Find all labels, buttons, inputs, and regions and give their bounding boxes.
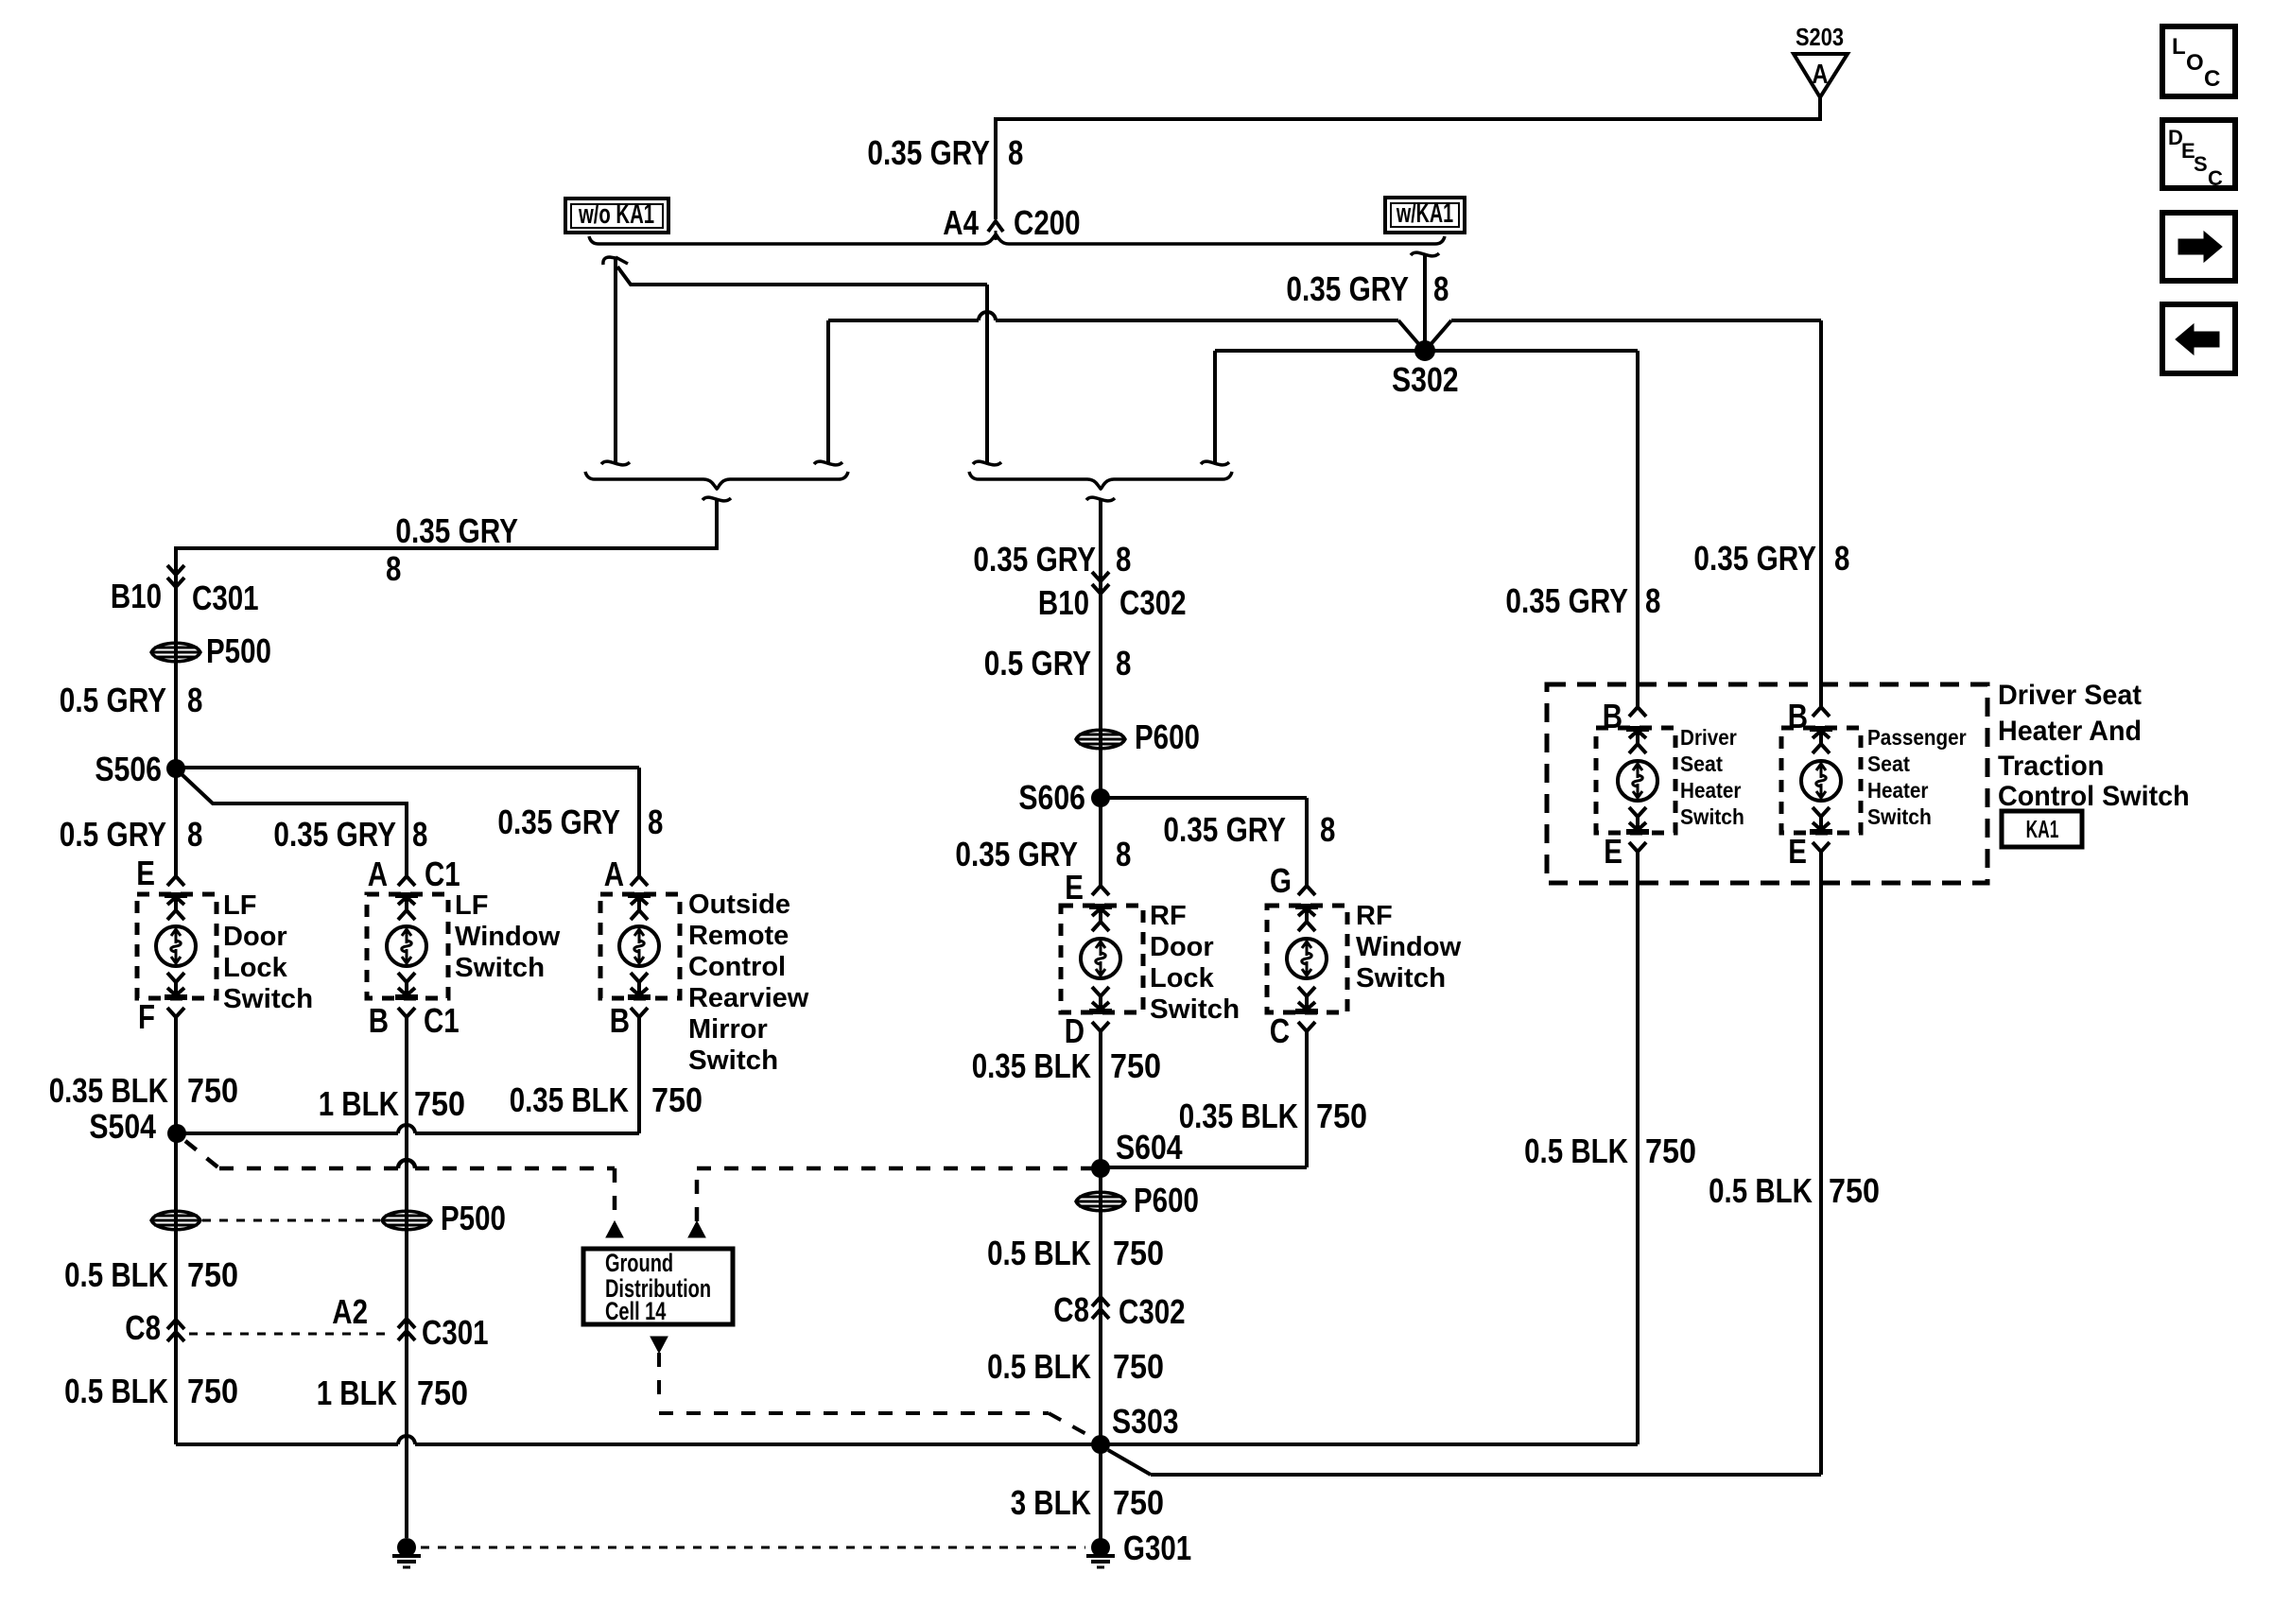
svg-text:0.35 GRY: 0.35 GRY bbox=[955, 835, 1078, 873]
svg-text:C1: C1 bbox=[425, 855, 460, 893]
wire S606 to RF door lock switch pin E bbox=[1099, 798, 1102, 886]
wire w/KA1 branch C200 to splice S302 bbox=[1411, 252, 1439, 256]
svg-text:Switch: Switch bbox=[1867, 804, 1932, 829]
option tag w/o KA1 box bbox=[565, 199, 668, 233]
svg-text:LF: LF bbox=[223, 890, 256, 921]
RF door lock switch lamp bbox=[1081, 939, 1120, 978]
svg-text:Switch: Switch bbox=[1150, 994, 1240, 1025]
svg-text:0.5 BLK: 0.5 BLK bbox=[987, 1234, 1091, 1272]
svg-text:0.5 BLK: 0.5 BLK bbox=[1709, 1171, 1813, 1210]
svg-text:Window: Window bbox=[455, 922, 561, 952]
svg-text:B10: B10 bbox=[111, 577, 162, 615]
svg-text:Control Switch: Control Switch bbox=[1998, 781, 2190, 812]
outside mirror switch terminals bbox=[631, 876, 648, 886]
grommet P600 (feed) bbox=[1076, 730, 1125, 749]
svg-text:8: 8 bbox=[1834, 539, 1849, 578]
svg-text:0.35 GRY: 0.35 GRY bbox=[273, 815, 396, 854]
svg-text:S506: S506 bbox=[95, 750, 162, 788]
svg-text:RF: RF bbox=[1150, 901, 1187, 931]
svg-text:1 BLK: 1 BLK bbox=[317, 1373, 397, 1412]
svg-text:A: A bbox=[368, 855, 388, 893]
svg-text:L: L bbox=[2172, 34, 2186, 60]
svg-text:Switch: Switch bbox=[688, 1045, 778, 1076]
svg-text:S203: S203 bbox=[1796, 23, 1844, 51]
ground G301 bbox=[1091, 1538, 1110, 1557]
outside mirror switch lamp bbox=[619, 926, 659, 966]
connector C302 pin B10 (in-line) bbox=[1092, 584, 1109, 594]
svg-text:750: 750 bbox=[651, 1080, 703, 1119]
splice S302 bbox=[1414, 340, 1435, 361]
svg-text:0.35 GRY: 0.35 GRY bbox=[867, 133, 990, 172]
svg-text:0.5 GRY: 0.5 GRY bbox=[60, 815, 166, 854]
svg-text:Traction: Traction bbox=[1998, 751, 2104, 782]
svg-text:Rearview: Rearview bbox=[688, 983, 809, 1013]
splice S203 off-page reference triangle bbox=[1794, 54, 1848, 97]
RF door lock switch terminals bbox=[1092, 886, 1109, 895]
svg-text:S302: S302 bbox=[1392, 360, 1459, 399]
svg-text:Control: Control bbox=[688, 952, 786, 982]
svg-text:C301: C301 bbox=[422, 1313, 489, 1352]
splice S303 bbox=[1091, 1435, 1110, 1454]
wire from S203 down-left to connector C200 pin A4 bbox=[996, 97, 1820, 219]
svg-text:3 BLK: 3 BLK bbox=[1011, 1483, 1091, 1522]
svg-text:0.5 BLK: 0.5 BLK bbox=[1524, 1132, 1628, 1170]
wire S506 to outside mirror switch pin A bbox=[176, 766, 639, 769]
svg-text:E: E bbox=[1065, 868, 1084, 907]
wire 0.35 GRY from C200 to passenger-switch column (with S302 dip) bbox=[814, 461, 842, 465]
svg-text:750: 750 bbox=[417, 1373, 468, 1412]
svg-text:Remote: Remote bbox=[688, 921, 789, 951]
svg-text:0.5 GRY: 0.5 GRY bbox=[984, 644, 1091, 682]
dashed link ground distribution to S303 bbox=[651, 1337, 668, 1353]
wire from lower-left brace to LF column bbox=[176, 500, 717, 769]
svg-text:0.5 BLK: 0.5 BLK bbox=[987, 1347, 1091, 1386]
wire mirror pin B down to S504 run bbox=[637, 1017, 641, 1133]
svg-text:0.35 GRY: 0.35 GRY bbox=[497, 803, 620, 841]
passenger seat heater switch box bbox=[1781, 728, 1861, 833]
svg-text:0.35 GRY: 0.35 GRY bbox=[1286, 269, 1409, 308]
svg-text:750: 750 bbox=[1113, 1347, 1164, 1386]
svg-text:0.35 GRY: 0.35 GRY bbox=[395, 511, 518, 550]
splice S504 bbox=[167, 1124, 186, 1143]
svg-text:Lock: Lock bbox=[1150, 963, 1215, 993]
svg-text:Cell 14: Cell 14 bbox=[605, 1297, 666, 1325]
svg-text:8: 8 bbox=[1116, 835, 1131, 873]
RF door lock switch box bbox=[1061, 906, 1143, 1012]
svg-text:8: 8 bbox=[187, 681, 202, 719]
svg-text:C: C bbox=[1270, 1011, 1290, 1050]
svg-text:D: D bbox=[1065, 1011, 1084, 1050]
outside mirror switch box bbox=[600, 894, 680, 998]
svg-text:0.35 GRY: 0.35 GRY bbox=[973, 540, 1096, 579]
svg-text:750: 750 bbox=[1110, 1046, 1161, 1085]
dashed link S504 to ground distribution bbox=[185, 1141, 219, 1168]
svg-text:750: 750 bbox=[1113, 1483, 1164, 1522]
grommet P500 pair (window wire) bbox=[382, 1211, 431, 1230]
splice S606 bbox=[1091, 788, 1110, 807]
wire LF column to splice S303 bbox=[174, 1133, 178, 1444]
svg-text:0.5 GRY: 0.5 GRY bbox=[60, 681, 166, 719]
wire S504 collector to mirror column bbox=[177, 1132, 398, 1135]
LF window switch terminals bbox=[398, 876, 415, 886]
wire w/o KA1 option branch (hooked vertical) bbox=[603, 257, 616, 265]
wire driver seat heater pin E to S303 bbox=[1636, 852, 1640, 1444]
wire S303 to G301 ground bbox=[1099, 1444, 1102, 1539]
driver seat heater switch lamp bbox=[1618, 761, 1657, 801]
svg-text:Driver: Driver bbox=[1680, 725, 1737, 750]
svg-text:w/o KA1: w/o KA1 bbox=[578, 199, 654, 230]
svg-text:Heater: Heater bbox=[1680, 778, 1741, 803]
svg-text:E: E bbox=[136, 854, 155, 892]
grommet P600 (ground) bbox=[1076, 1192, 1125, 1211]
svg-text:P600: P600 bbox=[1135, 717, 1200, 756]
LF window switch lamp bbox=[387, 926, 426, 966]
svg-text:Outside: Outside bbox=[688, 890, 790, 920]
svg-text:P600: P600 bbox=[1134, 1181, 1199, 1219]
svg-text:E: E bbox=[1788, 832, 1807, 871]
driver seat heater and traction control switch assembly box bbox=[1547, 684, 1987, 883]
svg-text:0.35 GRY: 0.35 GRY bbox=[1693, 539, 1816, 578]
connector C301 pin B10 (in-line) bbox=[167, 578, 184, 587]
svg-text:G: G bbox=[1270, 861, 1292, 900]
svg-text:8: 8 bbox=[1645, 581, 1660, 620]
LF window switch box bbox=[367, 894, 448, 998]
wire RF window pin C to S604 bbox=[1305, 1031, 1309, 1167]
grommet P500 (feed) bbox=[151, 643, 200, 662]
svg-text:Ground: Ground bbox=[605, 1249, 673, 1277]
svg-text:P500: P500 bbox=[206, 631, 271, 670]
svg-text:Switch: Switch bbox=[223, 984, 313, 1014]
svg-text:0.5 BLK: 0.5 BLK bbox=[64, 1372, 168, 1410]
svg-text:750: 750 bbox=[1829, 1171, 1880, 1210]
svg-text:Lock: Lock bbox=[223, 953, 288, 983]
svg-text:750: 750 bbox=[1113, 1234, 1164, 1272]
splice S506 bbox=[166, 759, 185, 778]
connector brace lower-left (w/o KA1 rejoin) bbox=[585, 472, 848, 489]
connector C302 pin C8 (in-line) bbox=[1092, 1297, 1109, 1306]
svg-text:w/KA1: w/KA1 bbox=[1396, 199, 1453, 229]
svg-text:Door: Door bbox=[1150, 932, 1214, 962]
connector C301 pin A2 (in-line) bbox=[398, 1319, 415, 1328]
svg-text:Window: Window bbox=[1356, 932, 1462, 962]
svg-text:0.35 BLK: 0.35 BLK bbox=[1179, 1097, 1298, 1135]
svg-text:Heater: Heater bbox=[1867, 778, 1928, 803]
driver seat heater switch box bbox=[1596, 728, 1675, 833]
svg-text:Switch: Switch bbox=[455, 953, 545, 983]
svg-text:8: 8 bbox=[648, 803, 663, 841]
svg-text:C: C bbox=[2208, 166, 2223, 190]
passenger seat heater switch lamp bbox=[1801, 761, 1841, 801]
svg-text:8: 8 bbox=[1320, 810, 1335, 849]
svg-text:750: 750 bbox=[187, 1255, 238, 1294]
svg-text:750: 750 bbox=[1645, 1132, 1696, 1170]
ground distribution cell box bbox=[583, 1249, 733, 1324]
svg-text:750: 750 bbox=[187, 1372, 238, 1410]
svg-text:0.35 BLK: 0.35 BLK bbox=[972, 1046, 1091, 1085]
svg-text:A: A bbox=[604, 855, 624, 893]
svg-text:A: A bbox=[1812, 60, 1828, 90]
svg-text:A2: A2 bbox=[332, 1292, 368, 1331]
legend next-page arrow box bbox=[2162, 213, 2235, 281]
svg-text:0.35 BLK: 0.35 BLK bbox=[510, 1080, 629, 1119]
svg-text:C302: C302 bbox=[1119, 1292, 1186, 1331]
svg-text:Door: Door bbox=[223, 922, 287, 952]
svg-text:C8: C8 bbox=[1053, 1290, 1089, 1329]
svg-text:C301: C301 bbox=[192, 579, 259, 617]
svg-text:0.35 GRY: 0.35 GRY bbox=[1505, 581, 1628, 620]
svg-text:750: 750 bbox=[1316, 1097, 1367, 1135]
svg-text:8: 8 bbox=[386, 549, 401, 588]
connector brace lower-middle (w/KA1 rejoin) bbox=[969, 472, 1232, 489]
dashed link ground distribution to S604 bbox=[688, 1221, 705, 1237]
wire RF door lock pin D to S604 bbox=[1099, 1031, 1102, 1168]
connector C200 pin A4 terminal bbox=[988, 221, 1003, 232]
svg-text:C200: C200 bbox=[1014, 203, 1081, 242]
grommet P500 pair (door lock wire) bbox=[151, 1211, 200, 1230]
wire S506 to LF door lock switch pin E bbox=[174, 769, 178, 876]
wire S604 to splice S303 bbox=[1099, 1168, 1102, 1444]
svg-text:P500: P500 bbox=[441, 1199, 506, 1237]
LF door lock switch box bbox=[137, 894, 217, 998]
wire from lower-middle brace down RF column bbox=[1099, 500, 1102, 798]
svg-text:8: 8 bbox=[1008, 133, 1023, 172]
svg-text:0.35 BLK: 0.35 BLK bbox=[49, 1071, 168, 1110]
svg-text:B10: B10 bbox=[1038, 583, 1089, 622]
wire S506 to LF window switch pin A bbox=[182, 774, 407, 876]
RF window switch box bbox=[1267, 906, 1347, 1012]
svg-text:8: 8 bbox=[412, 815, 427, 854]
svg-text:8: 8 bbox=[187, 815, 202, 854]
connector C301 pin C8 (in-line) bbox=[167, 1320, 184, 1329]
svg-text:Mirror: Mirror bbox=[688, 1014, 768, 1045]
svg-text:S606: S606 bbox=[1018, 778, 1085, 817]
svg-text:750: 750 bbox=[187, 1071, 238, 1110]
wire S606 to RF window switch pin G bbox=[1101, 796, 1307, 800]
legend previous-page arrow box bbox=[2162, 304, 2235, 373]
svg-text:B: B bbox=[610, 1001, 630, 1040]
svg-text:S604: S604 bbox=[1116, 1128, 1183, 1166]
wire splice S302 horizontal to driver seat heater switch bbox=[1201, 461, 1229, 465]
svg-text:1 BLK: 1 BLK bbox=[319, 1084, 399, 1123]
svg-text:RF: RF bbox=[1356, 901, 1393, 931]
dashed link between grounds bbox=[421, 1546, 1085, 1549]
passenger seat heater switch terminals bbox=[1813, 707, 1830, 717]
svg-text:A4: A4 bbox=[943, 203, 979, 242]
svg-text:8: 8 bbox=[1116, 644, 1131, 682]
wire LF window pin B down through P500/C301 to ground bbox=[405, 1017, 408, 1538]
svg-text:Passenger: Passenger bbox=[1867, 725, 1967, 750]
svg-text:S: S bbox=[2194, 152, 2208, 176]
svg-text:Seat: Seat bbox=[1867, 752, 1910, 776]
connector C200 brace bbox=[589, 234, 1445, 244]
splice S604 bbox=[1091, 1159, 1110, 1178]
dashed link between P500 grommets bbox=[202, 1219, 380, 1222]
RF window switch terminals bbox=[1298, 886, 1315, 895]
wire w/o KA1 jumper to centre column bbox=[617, 267, 987, 285]
connector tag KA1 box bbox=[2002, 811, 2082, 847]
svg-text:Heater And: Heater And bbox=[1998, 716, 2142, 747]
legend LOC box bbox=[2162, 26, 2235, 96]
svg-text:B: B bbox=[369, 1001, 389, 1040]
ground (window switch wire) bbox=[397, 1538, 416, 1557]
svg-text:O: O bbox=[2186, 50, 2204, 76]
wire LF door lock pin F to S504 bbox=[174, 1017, 178, 1133]
svg-text:0.5 BLK: 0.5 BLK bbox=[64, 1255, 168, 1294]
legend DESC box bbox=[2162, 120, 2235, 188]
svg-text:0.35 GRY: 0.35 GRY bbox=[1163, 810, 1286, 849]
svg-text:LF: LF bbox=[455, 890, 488, 921]
svg-text:KA1: KA1 bbox=[2026, 815, 2059, 843]
option tag w/KA1 box bbox=[1385, 198, 1465, 233]
svg-text:C: C bbox=[2204, 66, 2220, 92]
wire passenger seat heater pin E to S303 bbox=[1819, 852, 1823, 1475]
driver seat heater switch terminals bbox=[1629, 707, 1646, 717]
svg-text:C302: C302 bbox=[1119, 583, 1187, 622]
svg-text:C1: C1 bbox=[424, 1001, 460, 1040]
svg-text:8: 8 bbox=[1433, 269, 1449, 308]
svg-text:C8: C8 bbox=[125, 1308, 161, 1347]
svg-text:E: E bbox=[1604, 832, 1622, 871]
svg-text:8: 8 bbox=[1116, 540, 1131, 579]
svg-text:Seat: Seat bbox=[1680, 752, 1723, 776]
svg-text:S504: S504 bbox=[89, 1107, 156, 1146]
dashed link C8 to A2 connectors bbox=[189, 1333, 391, 1336]
svg-text:F: F bbox=[138, 997, 155, 1036]
svg-text:Switch: Switch bbox=[1356, 963, 1446, 993]
svg-text:G301: G301 bbox=[1123, 1529, 1191, 1567]
LF door lock switch lamp bbox=[156, 926, 196, 966]
svg-text:S303: S303 bbox=[1112, 1402, 1179, 1441]
svg-text:750: 750 bbox=[414, 1084, 465, 1123]
svg-text:Driver Seat: Driver Seat bbox=[1998, 680, 2142, 711]
LF door lock switch terminals bbox=[167, 876, 184, 886]
svg-text:Switch: Switch bbox=[1680, 804, 1744, 829]
RF window switch lamp bbox=[1287, 939, 1327, 978]
